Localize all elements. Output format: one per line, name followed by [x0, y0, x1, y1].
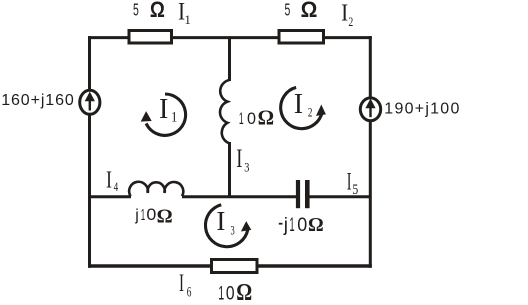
label mesh I2	[294, 89, 313, 120]
wire top	[88, 36, 372, 39]
svg-text:Ω: Ω	[150, 0, 165, 22]
label branch current I1 (top-left)	[178, 0, 191, 27]
svg-text:I: I	[347, 169, 352, 196]
label branch current I2 (top-right)	[341, 0, 353, 29]
capacitor C1 (-j10 ohm)	[296, 180, 310, 208]
svg-text:3: 3	[231, 224, 236, 238]
svg-text:0: 0	[297, 213, 307, 235]
mesh current I2 arrow (counterclockwise, right mesh)	[281, 87, 326, 128]
resistor R1 (5 ohm, top-left branch)	[129, 31, 172, 44]
svg-text:I: I	[179, 270, 184, 297]
svg-text:I: I	[294, 89, 303, 120]
resistor R3 (10 ohm, bottom branch)	[212, 260, 258, 273]
label mesh I1	[159, 94, 177, 126]
svg-text:0: 0	[146, 205, 156, 225]
svg-text:1: 1	[171, 109, 177, 125]
label mesh I3	[216, 206, 235, 238]
wire left	[88, 36, 91, 268]
svg-text:Ω: Ω	[258, 106, 274, 129]
svg-text:2: 2	[308, 106, 313, 120]
current source IS1 (160+j160)	[80, 90, 100, 114]
label branch current I5	[347, 169, 359, 197]
svg-text:6: 6	[187, 283, 192, 300]
svg-text:1: 1	[239, 109, 244, 128]
svg-text:0: 0	[247, 109, 256, 128]
svg-text:1: 1	[184, 12, 191, 27]
inductor L1 (10 ohm, middle branch)	[220, 80, 229, 143]
svg-text:0: 0	[226, 282, 235, 304]
svg-text:I: I	[106, 166, 112, 193]
svg-text:3: 3	[244, 161, 249, 175]
svg-text:Ω: Ω	[157, 206, 173, 228]
svg-text:j: j	[134, 207, 139, 224]
svg-text:I: I	[159, 94, 168, 125]
svg-text:I: I	[341, 0, 348, 26]
label 10 ohm (R3)	[218, 278, 252, 305]
label 5 ohm (R2)	[285, 0, 318, 22]
label -j10 ohm (C1)	[279, 213, 324, 236]
svg-text:2: 2	[348, 16, 353, 30]
label branch current I4	[106, 166, 118, 194]
wire right	[369, 36, 372, 268]
label j10 ohm (L2)	[134, 205, 172, 228]
svg-text:190+j100: 190+j100	[384, 100, 460, 117]
svg-text:I: I	[236, 144, 242, 173]
svg-text:1: 1	[289, 214, 294, 236]
wire middle vertical branch (node between R1 and R2 down to middle node)	[228, 38, 231, 81]
wire bottom	[88, 264, 372, 268]
svg-text:160+j160: 160+j160	[1, 92, 75, 109]
svg-text:I: I	[216, 206, 225, 236]
svg-text:5: 5	[133, 1, 139, 21]
label 5 ohm (R1)	[133, 0, 165, 22]
svg-text:5: 5	[285, 1, 291, 21]
resistor R2 (5 ohm, top-right branch)	[279, 31, 324, 44]
svg-text:j: j	[283, 215, 288, 236]
svg-text:4: 4	[114, 180, 119, 194]
svg-text:1: 1	[218, 283, 224, 304]
label branch current I6	[179, 270, 191, 300]
svg-text:1: 1	[141, 206, 145, 224]
svg-text:Ω: Ω	[301, 0, 318, 22]
mesh current I3 arrow (counterclockwise, bottom mesh)	[205, 205, 251, 247]
label branch current I3 (middle branch)	[236, 144, 249, 175]
inductor L2 (j10 ohm)	[129, 182, 183, 196]
svg-text:5: 5	[352, 181, 358, 198]
label 10 ohm (L1)	[239, 106, 274, 129]
wire middle horizontal branch (I4/I5 branch)	[90, 195, 132, 198]
svg-text:Ω: Ω	[236, 278, 252, 305]
current source IS2 (190+j100)	[360, 98, 380, 121]
mesh current I1 arrow (clockwise, left mesh)	[141, 94, 186, 135]
svg-text:Ω: Ω	[308, 214, 324, 236]
